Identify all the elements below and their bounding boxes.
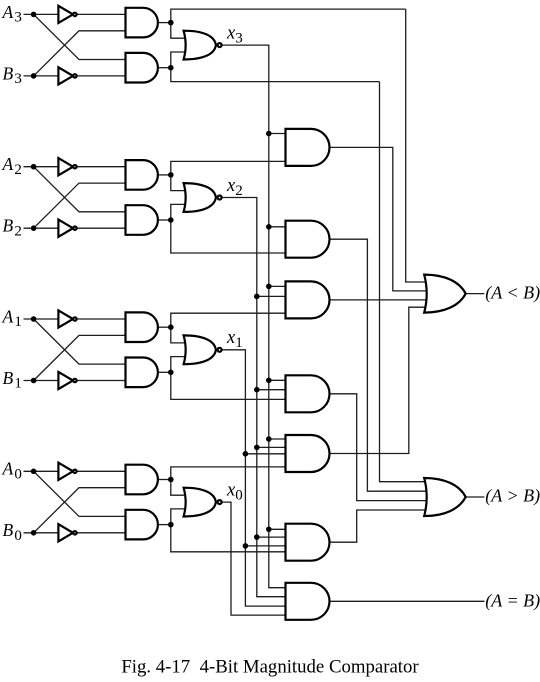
svg-text:B0: B0	[3, 520, 22, 544]
svg-text:A1: A1	[2, 306, 22, 330]
svg-text:B3: B3	[3, 63, 22, 87]
svg-text:B2: B2	[3, 216, 22, 240]
svg-text:(A = B): (A = B)	[485, 591, 540, 612]
svg-text:x1: x1	[226, 328, 243, 351]
svg-text:A0: A0	[2, 459, 22, 483]
svg-text:A2: A2	[2, 154, 22, 178]
svg-text:A3: A3	[2, 2, 22, 26]
svg-text:x0: x0	[226, 480, 243, 503]
svg-text:x2: x2	[226, 176, 243, 199]
svg-text:B1: B1	[3, 368, 22, 392]
svg-text:(A > B): (A > B)	[485, 485, 540, 506]
svg-text:Fig. 4-17 4-Bit Magnitude Com: Fig. 4-17 4-Bit Magnitude Comparator	[121, 657, 419, 678]
svg-text:(A < B): (A < B)	[485, 282, 540, 303]
svg-text:x3: x3	[226, 24, 243, 47]
